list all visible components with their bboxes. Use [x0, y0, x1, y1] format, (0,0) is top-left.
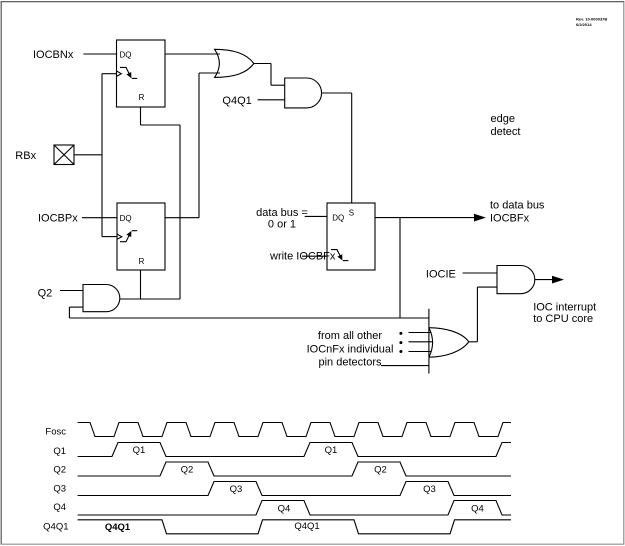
svg-text:Q1: Q1 [53, 446, 66, 457]
svg-text:Q4Q1: Q4Q1 [43, 521, 68, 532]
wire OR1 out to AND1 [254, 64, 285, 86]
svg-text:to data bus: to data bus [490, 199, 545, 211]
svg-text:edge: edge [491, 113, 515, 125]
svg-text:Q4Q1: Q4Q1 [105, 522, 131, 533]
svg-text:Q3: Q3 [53, 483, 66, 494]
wire OR4 middle inputs [409, 333, 434, 352]
svg-text:Q4: Q4 [278, 504, 291, 515]
svg-text:6/2/2014: 6/2/2014 [576, 22, 592, 27]
wire AND2 out to reset net [120, 298, 180, 300]
waveform Q1 [78, 443, 511, 457]
and-gate AND1 (Q4Q1 gate) [285, 78, 322, 108]
wire pin detectors to OR4 bottom input [381, 365, 429, 367]
svg-text:R: R [139, 93, 145, 102]
waveform Q4Q1 [78, 520, 511, 534]
svg-text:Q4Q1: Q4Q1 [294, 521, 319, 532]
svg-text:write IOCBFx: write IOCBFx [269, 251, 336, 263]
svg-text:DQ: DQ [120, 214, 132, 223]
wire AND3 out / IOC interrupt arrow [535, 279, 552, 281]
svg-text:Q3: Q3 [230, 484, 243, 495]
or-gate OR1 [215, 49, 254, 77]
svg-text:RBx: RBx [15, 150, 36, 162]
svg-text:Q1: Q1 [325, 445, 338, 456]
svg-text:Q3: Q3 [423, 484, 436, 495]
wire IOCBPx to FF2 D [82, 217, 117, 219]
svg-text:Q2: Q2 [181, 465, 194, 476]
svg-text:Q4: Q4 [471, 504, 484, 515]
svg-text:Q4: Q4 [53, 502, 66, 513]
svg-text:IOCBNx: IOCBNx [33, 49, 74, 61]
svg-text:detect: detect [491, 126, 521, 138]
timing diagram [78, 423, 511, 534]
arrowhead to data bus [474, 214, 486, 222]
svg-text:Q2: Q2 [38, 287, 53, 299]
and-gate AND2 (Q2 reset gate) [83, 285, 120, 312]
node ellipsis dots [399, 332, 402, 353]
wire Q2 to AND2 [60, 290, 83, 292]
svg-text:0 or 1: 0 or 1 [268, 218, 296, 230]
wire IOCBNx to FF1 D [83, 53, 116, 55]
svg-text:Q1: Q1 [133, 445, 146, 456]
flip-flop U1 (IOCBNx edge detect, falling) [117, 40, 166, 107]
svg-text:Fosc: Fosc [45, 427, 66, 438]
latch U3 (IOCBFx) [327, 203, 375, 270]
wire FF2 Q to OR1 lower input [165, 73, 220, 218]
or-gate OR4 (summing OR, input bar) [429, 309, 469, 374]
svg-text:S: S [349, 209, 354, 218]
waveform Q4 [78, 501, 511, 516]
svg-text:data bus =: data bus = [256, 207, 308, 219]
svg-text:pin detectors: pin detectors [319, 356, 382, 368]
waveform Q2 [78, 462, 511, 476]
pin RBx [54, 145, 74, 165]
wire FF1 Q to OR1 input [165, 53, 220, 55]
svg-text:IOCnFx individual: IOCnFx individual [307, 343, 394, 355]
svg-text:IOCBPx: IOCBPx [38, 213, 78, 225]
svg-text:to CPU core: to CPU core [533, 313, 593, 325]
wire data bus to latch D [305, 215, 327, 217]
waveform Fosc [78, 423, 511, 437]
arrowhead IOC interrupt [552, 276, 564, 284]
wire write IOCBFx to latch clk [302, 255, 327, 257]
svg-text:from all other: from all other [318, 330, 383, 342]
svg-text:DQ: DQ [332, 214, 344, 223]
waveform Q3 [78, 482, 511, 496]
svg-text:DQ: DQ [120, 50, 132, 59]
wire IOCBFx feedback node [69, 218, 429, 318]
wire FF1 R to reset net [141, 107, 181, 299]
wire clock net: FF1 clk / RBx / FF2 clk [102, 74, 117, 237]
svg-text:Q4Q1: Q4Q1 [222, 95, 251, 107]
wire Q4Q1 to AND1 [258, 99, 285, 101]
svg-text:Q2: Q2 [374, 465, 387, 476]
svg-text:IOCIE: IOCIE [426, 269, 456, 281]
svg-text:IOCBFx: IOCBFx [490, 213, 530, 225]
wire RBx to clock net [74, 154, 102, 156]
and-gate AND3 (interrupt gate) [497, 266, 535, 294]
wire IOCIE to AND3 [463, 272, 497, 274]
wire latch Q to data bus output [375, 217, 475, 219]
wire FF2 R to reset net [140, 270, 142, 299]
wire OR4 out to AND3 lower input [469, 287, 497, 342]
svg-text:Q2: Q2 [53, 465, 66, 476]
wire AND1 out to latch S [322, 93, 352, 203]
flip-flop U2 (IOCBPx edge detect, rising) [117, 203, 165, 270]
svg-text:R: R [139, 257, 145, 266]
svg-text:IOC interrupt: IOC interrupt [533, 301, 596, 313]
